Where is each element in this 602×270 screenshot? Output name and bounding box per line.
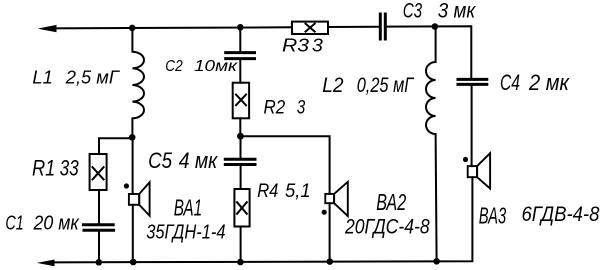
wire L1 node to BA1 — [132, 138, 134, 194]
capacitor C5 — [225, 158, 255, 161]
resistor R1 — [90, 154, 107, 190]
svg-text:20ГДС-4-8: 20ГДС-4-8 — [344, 215, 430, 238]
svg-text:ВА2: ВА2 — [376, 189, 406, 215]
svg-text:2,5 мГ: 2,5 мГ — [65, 67, 121, 88]
output arrow bottom — [37, 260, 55, 267]
wire BA2 to bottom bus — [329, 203, 331, 261]
svg-text:ВА1: ВА1 — [174, 195, 203, 221]
svg-text:R2: R2 — [264, 97, 286, 119]
svg-text:3: 3 — [312, 36, 323, 56]
svg-text:2 мк: 2 мк — [528, 70, 570, 95]
wire node to C5 — [240, 136, 242, 158]
node junction top at L1 — [129, 25, 136, 32]
svg-text:35ГДН-1-4: 35ГДН-1-4 — [146, 222, 225, 244]
svg-text:0,25 мГ: 0,25 мГ — [357, 74, 415, 97]
svg-text:33: 33 — [60, 155, 80, 180]
node junction bottom at BA2 — [327, 258, 334, 265]
resistor R4 — [234, 189, 249, 227]
svg-text:C1: C1 — [5, 211, 23, 234]
svg-text:L1: L1 — [32, 67, 53, 88]
svg-text:R4: R4 — [257, 181, 278, 202]
wire BA1 to bottom bus — [132, 205, 134, 262]
svg-text:3 мк: 3 мк — [438, 0, 476, 23]
wire top to C2 — [239, 27, 241, 52]
wire C2 to R2 — [239, 59, 241, 83]
svg-text:C3: C3 — [403, 0, 422, 23]
loudspeaker BA2 — [325, 194, 334, 203]
wire C4 to BA3 — [471, 85, 473, 166]
inductor L1 — [132, 29, 144, 137]
svg-text:5,1: 5,1 — [285, 181, 311, 202]
wire bottom bus — [50, 177, 472, 262]
node junction bottom at R4 — [237, 259, 244, 266]
svg-text:L2: L2 — [322, 74, 344, 97]
wire R4 to bottom bus — [240, 227, 242, 263]
svg-text:20 мк: 20 мк — [33, 211, 80, 234]
node junction R2/C5/BA2 — [237, 133, 244, 140]
capacitor C4 — [458, 78, 487, 81]
svg-text:ВА3: ВА3 — [479, 202, 506, 228]
loudspeaker BA3 — [468, 166, 477, 177]
wire top bus between C3 and C4 corner — [387, 26, 472, 79]
wire R2 to node — [239, 118, 241, 136]
inductor L2 — [426, 27, 437, 262]
svg-text:R3: R3 — [282, 36, 309, 56]
svg-text:C2: C2 — [165, 58, 182, 75]
svg-text:3: 3 — [297, 97, 306, 119]
output arrow top — [38, 25, 57, 32]
capacitor C1 — [83, 223, 113, 226]
node junction L1/R1/BA1 — [129, 134, 136, 141]
capacitor C3 — [379, 14, 382, 39]
svg-text:C5: C5 — [148, 148, 173, 173]
svg-text:6ГДВ-4-8: 6ГДВ-4-8 — [522, 203, 600, 226]
node junction top at L2 — [432, 23, 439, 30]
svg-text:10мк: 10мк — [194, 58, 239, 75]
resistor R3 — [292, 22, 328, 34]
wire node to BA2 — [240, 136, 329, 194]
capacitor C2 — [226, 51, 255, 54]
node junction bottom at L2 — [433, 258, 440, 265]
wire top bus left segment — [50, 27, 292, 28]
svg-text:C4: C4 — [500, 70, 520, 95]
node junction bottom at C1 — [96, 259, 103, 266]
wire R1 to C1 — [98, 190, 100, 224]
wire top bus between R3 and C3 — [328, 26, 379, 28]
wire R1 branch jog — [99, 138, 132, 154]
wire C5 to R4 — [240, 165, 242, 189]
svg-text:R1: R1 — [32, 155, 55, 180]
node junction bottom at BA1 — [130, 259, 137, 266]
node junction top at C2 — [237, 24, 244, 31]
wire C1 to bottom bus — [98, 231, 100, 262]
resistor R2 — [233, 83, 249, 119]
svg-text:4 мк: 4 мк — [179, 148, 219, 173]
loudspeaker BA1 — [129, 194, 139, 205]
